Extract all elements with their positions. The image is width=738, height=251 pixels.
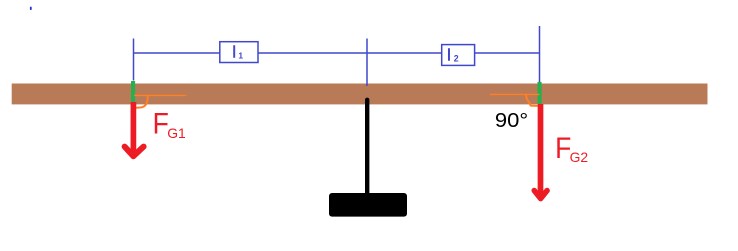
svg-text:l: l — [447, 47, 451, 65]
pivot stand stem — [365, 100, 369, 195]
orange reference line right — [490, 93, 540, 95]
orange reference line left — [134, 94, 186, 96]
pivot stand base — [329, 193, 407, 217]
green contact mark left — [131, 81, 135, 102]
force arrow FG2 head — [534, 191, 547, 199]
svg-text:l: l — [232, 44, 236, 62]
orange angle marker left — [136, 96, 148, 108]
dimension tick right — [539, 26, 541, 83]
force arrow FG1 shaft — [131, 102, 137, 153]
svg-text:2: 2 — [454, 54, 459, 64]
svg-text:90°: 90° — [495, 109, 528, 132]
svg-text:G2: G2 — [570, 149, 589, 165]
lever bar (brown beam) — [12, 84, 708, 105]
force arrow FG2 shaft — [538, 104, 544, 196]
green contact mark right — [538, 82, 542, 104]
orange angle marker right — [526, 95, 537, 106]
dimension tick left — [133, 39, 135, 81]
label box l1 — [220, 42, 258, 63]
dimension tick center — [366, 39, 368, 87]
label box l2 — [442, 45, 475, 66]
dimension line horizontal — [134, 52, 540, 54]
svg-text:G1: G1 — [167, 125, 186, 141]
force arrow FG1 head — [125, 147, 144, 157]
svg-text:1: 1 — [238, 51, 243, 61]
stray blue dot — [30, 7, 32, 10]
